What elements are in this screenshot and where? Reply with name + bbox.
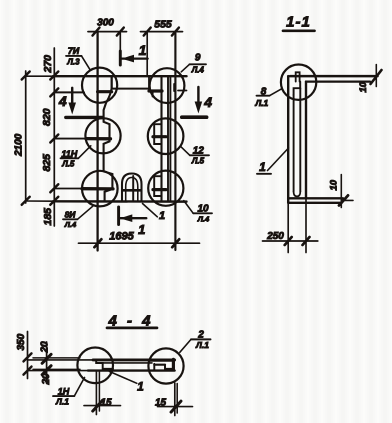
bar bottom line thick bbox=[88, 369, 175, 371]
svg-text:270: 270 bbox=[42, 55, 54, 74]
callout 2/L1 leader bbox=[180, 339, 191, 352]
right end cap bbox=[172, 359, 175, 369]
svg-text:1: 1 bbox=[138, 222, 145, 237]
chain B tick top bbox=[42, 354, 51, 363]
web line inner-right bbox=[299, 88, 301, 191]
web line outer-left bbox=[287, 76, 289, 203]
mid row line thick part bbox=[86, 137, 111, 140]
stub top-right circle b bbox=[173, 84, 175, 91]
panel inner top line right segment bbox=[178, 90, 187, 92]
part label 1 leader at dome bbox=[143, 204, 158, 217]
dim 1695 tick left bbox=[94, 239, 101, 247]
svg-text:1: 1 bbox=[139, 42, 147, 58]
section mark 4 right: arrowhead bbox=[195, 102, 203, 114]
dim 555 tick right bbox=[172, 28, 179, 36]
detail circle 2 bbox=[148, 348, 183, 383]
dim 300 right extension bbox=[119, 33, 121, 51]
panel bottom edge extension to total dim bbox=[26, 200, 53, 202]
dim 250 line bbox=[263, 240, 318, 242]
extension line top companion bbox=[33, 357, 80, 359]
detail circle top-right bbox=[150, 68, 185, 103]
callout 7I/L3 leader bbox=[82, 56, 90, 69]
right end top thick bbox=[149, 359, 174, 362]
2100 tick top bbox=[22, 72, 30, 80]
callout 8/L1 underline bbox=[257, 95, 270, 97]
right rib line a bbox=[160, 76, 162, 201]
section mark 4 right: arrow bbox=[197, 87, 199, 105]
dim 250 tick right bbox=[303, 237, 310, 245]
svg-text:Л.1: Л.1 bbox=[55, 397, 69, 407]
chain line B bbox=[46, 342, 48, 384]
detail circle top-left bbox=[82, 68, 117, 103]
callout 8I/L4 leader bbox=[78, 206, 93, 219]
svg-text:1: 1 bbox=[137, 380, 144, 394]
bar top line left thin bbox=[28, 359, 94, 361]
bottom flange upper line bbox=[288, 197, 343, 199]
right rib line d bbox=[174, 33, 176, 250]
header 4-4 underline bbox=[107, 327, 157, 330]
extension line bottom companion bbox=[33, 368, 80, 370]
left rib left line bbox=[96, 33, 98, 251]
svg-text:8И: 8И bbox=[65, 210, 77, 220]
bar bottom line left thin bbox=[28, 370, 89, 372]
svg-text:Л.5: Л.5 bbox=[61, 160, 75, 169]
weld mark top-right circle bbox=[149, 89, 162, 92]
part label 1 leader bbox=[268, 148, 289, 171]
stub top-right circle bbox=[152, 91, 154, 97]
dim 250 tick left bbox=[285, 237, 292, 245]
web line inner-left bbox=[293, 95, 295, 192]
dimension chain line left bbox=[53, 48, 55, 226]
svg-text:1Н: 1Н bbox=[58, 387, 70, 397]
chain A tick bottom bbox=[24, 367, 32, 375]
callout 12/L5 underline bbox=[190, 154, 209, 156]
mid-right circle weld tick bbox=[153, 135, 166, 138]
right end weld seg bbox=[154, 364, 165, 366]
dim 15 left tick bbox=[93, 400, 103, 411]
bottom flange end line bbox=[342, 199, 354, 201]
left end step of channel bbox=[96, 360, 113, 369]
detail circle mid-left bbox=[85, 118, 120, 153]
callout 11N/L5 leader bbox=[78, 146, 91, 159]
svg-text:Л.3: Л.3 bbox=[66, 58, 80, 67]
svg-text:555: 555 bbox=[154, 19, 172, 31]
svg-text:350: 350 bbox=[16, 333, 27, 350]
2100 tick bottom bbox=[22, 197, 30, 205]
mid row line bbox=[54, 138, 86, 140]
bottom-right circle step bbox=[154, 176, 161, 196]
section mark 4 left: arrowhead bbox=[68, 103, 76, 115]
dim 10 top: line bbox=[375, 65, 377, 87]
svg-text:825: 825 bbox=[41, 154, 53, 172]
dim 15 right line bbox=[158, 406, 193, 408]
right end step of channel bbox=[153, 364, 155, 370]
detail circle bottom-left bbox=[82, 171, 118, 207]
vent dome outer bbox=[122, 174, 142, 202]
svg-text:10: 10 bbox=[358, 81, 369, 92]
callout 9/L4 underline bbox=[190, 63, 207, 65]
dim 1695 line bbox=[79, 242, 200, 244]
extension down left a bbox=[95, 371, 97, 415]
chain tick y75.5 bbox=[50, 72, 58, 80]
svg-text:4: 4 bbox=[203, 94, 212, 110]
right end step b bbox=[165, 365, 173, 369]
svg-text:9: 9 bbox=[195, 53, 201, 64]
section mark 4 right: bar bbox=[182, 115, 207, 119]
vent dome inner bbox=[126, 178, 138, 202]
svg-text:20: 20 bbox=[41, 373, 52, 386]
bar top line thick bbox=[93, 358, 175, 361]
dim 10 bottom: line bbox=[340, 175, 342, 208]
callout 12/L5 leader bbox=[181, 147, 190, 156]
dim 1695 tick right bbox=[172, 239, 179, 247]
section mark 4 left: arrow bbox=[71, 88, 73, 106]
chain tick y138.5 bbox=[50, 135, 58, 143]
dim 555 tick left bbox=[144, 28, 151, 36]
chain A tick top bbox=[24, 353, 32, 361]
part label 1 underline bbox=[257, 173, 271, 175]
dim 555 left extension bbox=[146, 33, 148, 76]
section mark 1 bottom: bar bbox=[117, 207, 120, 225]
svg-text:300: 300 bbox=[97, 18, 114, 29]
panel inner top line left segment bbox=[54, 91, 84, 93]
dim 15 left line bbox=[84, 405, 121, 407]
top flange upper line bbox=[290, 75, 378, 78]
vent dome center line bbox=[132, 176, 134, 201]
panel inner top line middle segment bbox=[112, 88, 149, 90]
extension left down bbox=[287, 203, 289, 253]
svg-text:1: 1 bbox=[159, 210, 165, 222]
svg-text:7И: 7И bbox=[68, 46, 80, 56]
callout 1N/L1 leader bbox=[74, 378, 84, 397]
svg-text:20: 20 bbox=[40, 341, 51, 354]
left rib right contour bbox=[104, 76, 113, 201]
svg-text:1-1: 1-1 bbox=[286, 14, 311, 31]
svg-text:1695: 1695 bbox=[109, 231, 134, 243]
vent dome chord bbox=[123, 189, 142, 192]
extension down right b bbox=[176, 384, 178, 414]
svg-text:Л.4: Л.4 bbox=[191, 66, 205, 75]
svg-text:Л.1: Л.1 bbox=[195, 340, 209, 350]
dim 300 tick left bbox=[93, 28, 100, 36]
svg-text:Л.4: Л.4 bbox=[64, 220, 77, 229]
panel top edge bbox=[53, 75, 187, 77]
svg-text:15: 15 bbox=[155, 398, 167, 409]
extension down left b bbox=[98, 371, 100, 411]
svg-text:15: 15 bbox=[100, 398, 112, 409]
detail circle bottom-right bbox=[148, 171, 183, 206]
section mark 4 left: bar bbox=[66, 116, 103, 119]
callout 1N/L1 underline bbox=[53, 395, 74, 397]
dim 555 line bbox=[141, 31, 183, 33]
part label 1 leader bbox=[110, 372, 137, 384]
callout 10/L4 leader bbox=[184, 201, 193, 214]
right rib line c bbox=[169, 76, 171, 201]
mid-right circle step bbox=[154, 124, 161, 144]
callout 8I/L4 underline bbox=[63, 218, 78, 220]
svg-text:Л.4: Л.4 bbox=[197, 215, 210, 224]
callout 11N/L5 underline bbox=[61, 157, 79, 159]
detail circle mid-right bbox=[148, 118, 184, 154]
svg-text:4: 4 bbox=[58, 93, 67, 109]
svg-text:2100: 2100 bbox=[14, 133, 25, 157]
bottom row line bbox=[54, 188, 82, 190]
callout 10/L4 underline bbox=[193, 212, 212, 214]
detail circle 1N bbox=[77, 348, 113, 384]
svg-text:185: 185 bbox=[42, 208, 54, 226]
joint step detail bbox=[294, 82, 301, 95]
svg-text:Л.5: Л.5 bbox=[191, 157, 205, 166]
bottom flange lower line bbox=[288, 202, 341, 204]
svg-text:1: 1 bbox=[259, 160, 266, 174]
section mark 1 bottom: arrowhead bbox=[120, 214, 133, 222]
panel bottom edge bbox=[53, 200, 187, 203]
dim 300 tick right bbox=[117, 28, 124, 36]
section mark 1 top: arrow line bbox=[121, 57, 148, 59]
inner top end stub left bbox=[111, 76, 113, 88]
chain tick y92.4 bbox=[50, 88, 58, 96]
section mark 1 top: arrowhead bbox=[122, 55, 135, 63]
header 1-1 underline bbox=[283, 29, 315, 32]
svg-text:250: 250 bbox=[266, 231, 284, 242]
dim 10 top: tick bbox=[371, 70, 382, 84]
bottom-right circle weld tick bbox=[153, 188, 166, 191]
callout 9/L4 leader bbox=[181, 64, 189, 72]
svg-text:Л.1: Л.1 bbox=[254, 98, 268, 108]
svg-text:820: 820 bbox=[41, 108, 53, 126]
right rib line b bbox=[167, 76, 169, 201]
extension right down bbox=[305, 198, 307, 252]
bar second line bbox=[96, 362, 152, 364]
overall dim 2100 line bbox=[25, 71, 27, 203]
extension down right a bbox=[174, 383, 176, 416]
top flange lower line bbox=[306, 80, 370, 82]
bottom row line thick part bbox=[82, 187, 113, 190]
bottom flange end tick bbox=[339, 195, 348, 205]
dim 300 line bbox=[88, 31, 127, 33]
panel top edge extension to total dim bbox=[26, 75, 53, 77]
chain line A bbox=[27, 332, 29, 379]
weld mark top-left circle bbox=[98, 90, 112, 93]
chain tick y188.3 bbox=[50, 184, 58, 192]
dim 15 right tick bbox=[171, 401, 181, 412]
joint stub bbox=[296, 72, 300, 81]
section mark 1 top: bar bbox=[119, 51, 122, 65]
web inner U bottom bbox=[294, 192, 301, 197]
web line outer-right bbox=[305, 82, 307, 199]
chain tick y200.8 bbox=[50, 197, 58, 205]
callout 7I/L3 underline bbox=[66, 55, 82, 57]
section mark 1 bottom: arrow line bbox=[119, 217, 146, 219]
inner top end stub right bbox=[148, 76, 150, 88]
svg-text:10: 10 bbox=[329, 179, 340, 190]
callout 8/L1 leader bbox=[270, 89, 282, 96]
callout 2/L1 underline bbox=[191, 338, 211, 340]
detail circle 8 bbox=[281, 65, 316, 100]
chain B tick bottom bbox=[42, 366, 51, 375]
